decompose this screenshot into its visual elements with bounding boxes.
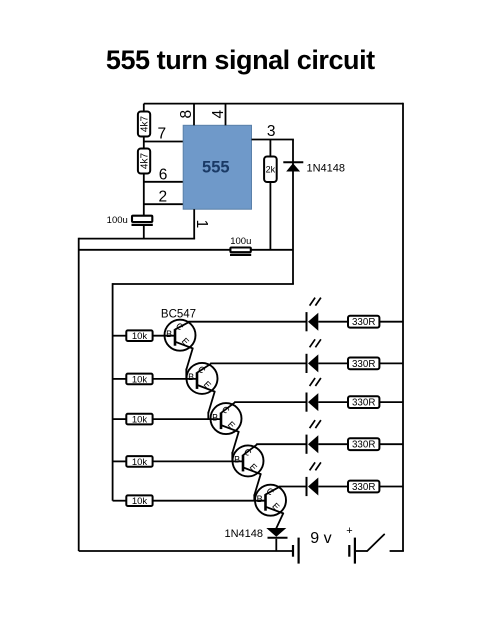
wire base bus horizontal [113,283,294,285]
wire 330R row2 to rail [379,362,403,364]
svg-text:10k: 10k [132,496,148,507]
svg-text:4k7: 4k7 [140,153,151,170]
resistor 10k #2 [126,374,152,386]
wire battery to switch [355,550,367,552]
battery plus sign [346,525,352,537]
diode D2 cathode bar [268,537,288,539]
wire pin7 lead [144,141,183,143]
wire Q4 emitter to Q5 base node [254,474,260,501]
wire Q2 collector to LED2 [210,362,305,364]
LED D4 triangle [308,435,318,453]
wire 10k row4 left lead [113,460,127,462]
diode D2 label 1N4148 [224,528,263,540]
pin 8 label [178,110,195,119]
wire pin4 stub [225,104,227,126]
capacitor C2 100u plate1 [230,248,250,253]
LED D1 cathode bar [306,312,308,331]
wire Q4 collector to LED4 [256,443,305,445]
diode D1 cathode bar [283,161,303,163]
wire 10k row5 left lead [113,500,127,502]
LED D3 light marks [310,378,321,386]
wire Q5 collector to LED5 [279,486,306,488]
capacitor C2 label 100u [230,236,251,247]
transistor Q5 BC547 [255,485,286,516]
resistor 330R #5 [348,481,379,493]
wire 10k row3 left lead [113,418,127,420]
svg-text:100u: 100u [230,236,251,247]
wire 330R row5 to rail [379,486,403,488]
resistor 330R #3 [348,396,379,408]
battery BT1 cell2 positive plate [354,538,356,564]
wire LED5 to 330R [318,486,348,488]
wire 330R row4 to rail [379,443,403,445]
svg-text:330R: 330R [352,317,375,328]
diode D1 label 1N4148 [307,162,346,174]
svg-text:10k: 10k [132,457,148,468]
svg-text:330R: 330R [352,359,375,370]
battery BT1 cell1 positive plate [298,538,300,564]
LED D2 light marks [310,339,321,347]
resistor R1 4k7 [138,112,151,137]
svg-text:1N4148: 1N4148 [224,528,263,540]
wire C2 right segment [251,249,293,251]
wire 330R row1 to rail [379,321,403,323]
pin 6 label [159,167,168,184]
wire Q2 emitter to Q3 base node [208,392,214,420]
pin 7 label [157,126,166,143]
resistor 10k #1 [126,330,152,342]
wire outer left vertical [78,238,80,551]
LED D1 light marks [310,298,321,306]
wire top supply rail [144,103,403,105]
LED D2 triangle [308,354,318,372]
wire Q5 emitter to diode D2 [276,513,283,528]
svg-text:10k: 10k [132,374,148,385]
svg-text:B: B [257,494,263,504]
LED D3 cathode bar [306,393,308,412]
resistor 330R #2 [348,358,379,370]
battery label 9 v [310,530,331,547]
wire 10k row1 left lead [113,335,127,337]
resistor 330R #4 [348,438,379,450]
wire diode D1 vertical [292,140,294,285]
wire 2k bottom lead [269,182,271,250]
wire pin8 stub [193,104,195,126]
svg-text:2: 2 [158,188,167,205]
capacitor C2 100u plate2 [230,254,251,256]
svg-text:4k7: 4k7 [140,116,151,133]
svg-text:555 turn signal circuit: 555 turn signal circuit [106,45,375,75]
svg-text:1N4148: 1N4148 [307,162,346,174]
svg-text:330R: 330R [352,482,375,493]
battery BT1 negative plate [292,545,294,557]
wire Q3 collector to LED3 [234,401,305,403]
transistor Q1 BC547 [165,320,196,351]
svg-text:6: 6 [159,167,168,184]
LED D3 triangle [308,393,318,411]
resistor 10k #3 [126,414,152,426]
resistor 330R #1 [348,316,379,328]
pin 3 label [267,123,276,140]
pin 2 label [158,188,167,205]
wire R2 to C1 [143,174,145,216]
svg-text:+: + [346,525,352,537]
svg-text:B: B [188,372,194,382]
wire pin1 ground return [79,238,195,240]
resistor 10k #4 [126,456,152,468]
LED D5 light marks [310,462,321,470]
battery BT1 cell2 negative plate [348,545,350,557]
wire pin6 lead [144,181,183,183]
svg-text:B: B [166,329,172,339]
svg-text:10k: 10k [132,415,148,426]
wire 330R row3 to rail [379,401,403,403]
wire Q1 collector to LED1 [188,321,305,323]
wire 10k row3 right lead [153,418,222,420]
pin 1 label [193,220,210,229]
wire C1 bottom lead [143,226,145,239]
wire C2 left segment [79,249,231,251]
LED D4 light marks [310,420,321,428]
svg-text:B: B [234,455,240,465]
wire pin3 lead [252,139,294,141]
wire D2 to bottom rail [275,539,277,551]
svg-text:10k: 10k [132,331,148,342]
pin 4 label [210,110,227,119]
transistor Q4 BC547 [233,445,264,477]
wire LED2 to 330R [318,362,348,364]
diode D2 triangle [266,528,286,537]
transistor Q3 BC547 [211,403,242,434]
svg-text:100u: 100u [107,215,128,226]
wire 4k7 chain top [143,104,145,112]
svg-text:7: 7 [157,126,166,143]
wire 10k row5 right lead [153,500,266,502]
wire 10k row1 right lead [153,335,176,337]
capacitor C1 100u plate2 [132,224,153,226]
wire bottom ground rail [79,550,293,552]
wire switch to right rail [390,550,404,552]
resistor R2 4k7 [138,149,151,174]
LED D4 cathode bar [306,435,308,454]
LED D1 triangle [308,313,318,331]
wire pin1 stub [193,209,195,238]
wire 10k row2 right lead [153,378,198,380]
svg-text:2k: 2k [266,164,276,174]
svg-text:330R: 330R [352,398,375,409]
wire Q1 emitter to Q2 base node [186,348,192,379]
diode D1 triangle [286,163,300,171]
switch SW1 blade [367,534,384,551]
wire LED3 to 330R [318,401,348,403]
transistor Q2 BC547 [187,363,218,394]
wire LED1 to 330R [318,321,348,323]
svg-text:9 v: 9 v [310,530,331,547]
svg-text:1: 1 [193,220,210,229]
wire pin2 lead [144,203,183,205]
resistor 10k #5 [126,495,152,507]
svg-text:555: 555 [202,159,230,177]
wire right supply rail [402,103,404,551]
wire 10k row2 left lead [113,378,127,380]
wire 10k row4 right lead [153,460,244,462]
svg-text:8: 8 [178,110,195,119]
wire 2k top lead [269,140,271,157]
LED D5 cathode bar [306,477,308,496]
capacitor C1 100u plate1 [132,216,152,222]
wire Q3 emitter to Q4 base node [232,432,238,462]
wire base bus vertical [112,283,114,501]
title text [106,45,375,75]
svg-text:B: B [212,412,218,422]
op-amp U1 555 timer body [183,125,251,209]
transistor type label BC547 [161,309,196,321]
LED D5 triangle [308,478,318,496]
svg-text:BC547: BC547 [161,309,196,321]
wire R1-R2 segment [143,137,145,149]
resistor R3 2k [264,157,277,183]
svg-text:3: 3 [267,123,276,140]
LED D2 cathode bar [306,354,308,373]
wire LED4 to 330R [318,443,348,445]
capacitor C1 label 100u [107,215,128,226]
svg-text:330R: 330R [352,440,375,451]
svg-text:4: 4 [210,110,227,119]
